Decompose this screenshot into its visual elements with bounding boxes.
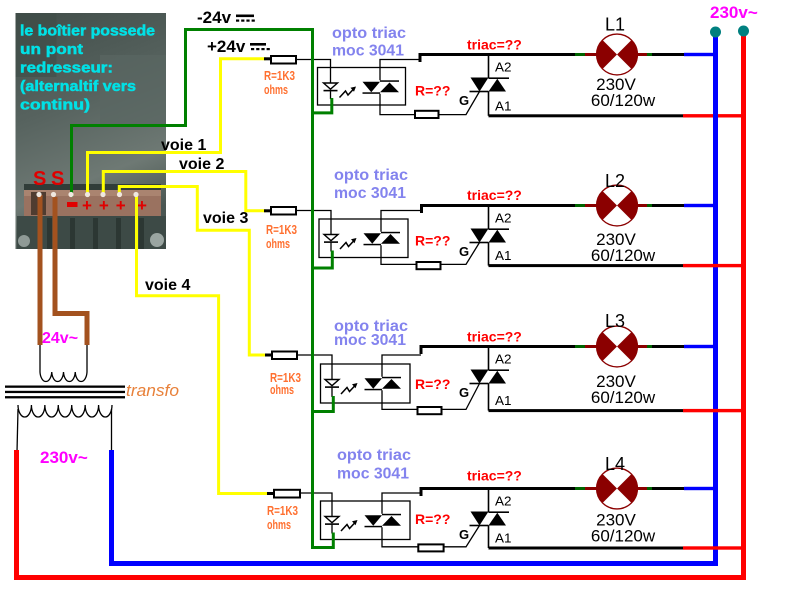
svg-text:+: + [137,196,147,215]
svg-text:L2: L2 [605,171,625,191]
light arrow inside opto U4 [341,522,356,532]
wire voie 3 (yellow) [119,187,267,356]
photo-triac of opto U1 [363,82,381,93]
svg-text:60/120w: 60/120w [591,91,656,110]
svg-text:A1: A1 [495,393,512,408]
pin dots on connector [36,192,138,197]
svg-text:continu): continu) [20,97,90,114]
svg-text:opto triac: opto triac [334,167,408,184]
wire 230v blue neutral bus [713,31,718,566]
LED of opto U3 [325,380,339,386]
lamp L4 230V [597,469,637,509]
svg-text:+: + [116,196,126,215]
opto U3 pin wires [382,355,421,377]
resistor R=1K3 lead (ch3) [265,354,273,357]
wire A1 return line ch2 [489,264,684,267]
svg-text:ohms: ohms [264,82,288,97]
svg-text:triac=??: triac=?? [467,329,522,345]
triac T2 [488,206,490,230]
wire +24v / voie 1 (yellow) [88,59,267,196]
svg-text:R=??: R=?? [415,511,450,527]
triac T1 [488,55,490,79]
wire voie 4 (yellow) [137,195,270,494]
svg-text:R=??: R=?? [415,83,450,99]
wire voie 2 (yellow) [103,172,266,211]
resistor R=1K3 ch1 [271,56,296,64]
opto U4 pin wires [382,493,421,514]
svg-text:230v~: 230v~ [710,3,758,22]
svg-text:opto triac: opto triac [332,25,406,42]
svg-text:A1: A1 [495,531,512,546]
resistor R=1K3 ch4 [274,490,300,498]
svg-text:R=??: R=?? [415,376,450,392]
svg-text:230v~: 230v~ [40,448,88,467]
svg-text:G: G [459,93,469,108]
LED of opto U1 [324,83,338,89]
svg-text:voie 4: voie 4 [145,277,190,294]
svg-text:ohms: ohms [267,517,291,532]
wire green LED cathode to bus (ch2) [311,251,332,269]
wire green LED cathode to bus (ch3) [311,396,333,412]
resistor R=?? ch3 (gate) [418,407,442,414]
resistor R=1K3 lead (ch1) [264,57,272,60]
opto U2 pin wires [381,211,422,232]
svg-text:ohms: ohms [266,236,290,251]
svg-text:A2: A2 [495,60,512,75]
svg-text:moc 3041: moc 3041 [332,43,404,60]
svg-text:S: S [33,168,46,190]
svg-text:opto triac: opto triac [337,447,411,464]
resistor R=1K3 ch2 [271,207,296,215]
connector strip on photo [24,190,161,216]
wire A2 line ch1 (to lamp) [419,53,422,62]
svg-text:voie 2: voie 2 [179,156,224,173]
lamp L1 230V [597,35,637,75]
node 230v~ terminal dots [710,27,721,38]
wire resistor to LED (ch2) [296,211,331,235]
resistor R=1K3 lead (ch2) [264,209,272,212]
svg-text:voie 3: voie 3 [203,210,248,227]
transformer core [5,386,125,399]
photo-triac of opto U3 [365,378,383,389]
opto coupler U2 box (moc 3041) [319,219,408,258]
terminal minus marker [67,202,78,207]
svg-text:ohms: ohms [270,382,294,397]
opto U1 pin wires [380,60,420,81]
wire gate resistor to triac gate (ch4) [444,526,480,547]
svg-text:-24v: -24v [197,8,232,27]
svg-text:60/120w: 60/120w [591,388,656,407]
svg-text:60/120w: 60/120w [591,246,656,265]
wire gate resistor to triac gate (ch1) [439,92,480,115]
transformer primary coil (24v) [40,343,87,382]
terminal plus markers [82,196,147,215]
svg-text:voie 1: voie 1 [161,137,206,154]
svg-text:transfo: transfo [126,381,179,400]
svg-text:moc 3041: moc 3041 [334,185,406,202]
wire gate resistor to triac gate (ch3) [442,384,480,410]
wire S terminal brown left [38,195,43,345]
resistor R=1K3 lead (ch4) [267,492,275,495]
LED of opto U2 [324,235,338,241]
svg-text:R=??: R=?? [415,233,450,249]
wire green LED cathode to bus (ch4) [311,533,333,548]
svg-text:redresseur:: redresseur: [20,60,113,77]
transformer secondary coil (230v) [17,405,112,452]
svg-text:(alternaltif vers: (alternaltif vers [20,78,136,95]
svg-text:A2: A2 [495,352,512,367]
svg-text:A2: A2 [495,494,512,509]
wire resistor to LED (ch3) [297,355,332,380]
wire A1 return line ch1 [489,114,684,117]
wire resistor to LED (ch1) [296,60,331,84]
wire green -24v cathode bus [311,28,314,549]
svg-text:L1: L1 [605,15,625,35]
wire A2 line ch2 (to lamp) [420,204,423,213]
svg-text:le boîtier possede: le boîtier possede [20,23,155,40]
photo-triac of opto U4 [365,515,383,526]
screw terminals on photo [17,216,166,249]
wire red bottom run to transformer [14,575,746,580]
light arrow inside opto U2 [340,240,355,250]
svg-text:+24v: +24v [207,37,246,56]
lamp L3 230V [597,327,637,367]
triac T3 [488,347,490,371]
svg-text:+: + [99,196,109,215]
LED of opto U4 [325,517,339,523]
wire A1 return line ch4 [489,547,684,550]
caption text on photo [20,23,155,114]
wire S terminal brown right [55,197,87,345]
wire A1 return line ch3 [489,409,684,412]
svg-text:L3: L3 [605,311,625,331]
resistor R=?? ch4 (gate) [418,544,443,551]
svg-text:R=1K3: R=1K3 [266,222,297,237]
svg-text:L4: L4 [605,454,625,474]
svg-text:+: + [82,196,92,215]
svg-text:triac=??: triac=?? [467,187,522,203]
svg-text:G: G [459,244,469,259]
wire blue bus over channel 1 crossing [713,114,718,118]
opto coupler U1 box (moc 3041) [318,68,406,106]
photo-triac of opto U2 [364,233,382,244]
svg-text:moc 3041: moc 3041 [337,466,409,483]
svg-text:R=1K3: R=1K3 [267,503,298,518]
opto coupler U4 box (moc 3041) [321,501,411,540]
triac T4 [488,489,490,513]
opto coupler U3 box (moc 3041) [321,364,411,403]
wire resistor to LED (ch4) [300,493,332,517]
resistor R=1K3 ch3 [272,352,297,360]
svg-text:moc 3041: moc 3041 [334,332,406,349]
wire -24v green to minus terminal [72,30,313,198]
resistor R=?? ch2 (gate) [417,262,441,269]
wire A2 line ch4 (to lamp) [420,487,423,496]
svg-text:A2: A2 [495,211,512,226]
wire gate resistor to triac gate (ch2) [441,243,480,265]
svg-text:R=1K3: R=1K3 [264,68,295,83]
wire green LED cathode to bus (ch1) [311,98,332,113]
resistor R=?? ch1 (gate) [415,111,439,118]
svg-text:24v~: 24v~ [42,330,78,347]
svg-text:triac=??: triac=?? [467,37,522,53]
svg-text:60/120w: 60/120w [591,527,656,546]
lamp L2 230V [597,186,637,226]
svg-text:A1: A1 [495,248,512,263]
svg-text:G: G [459,527,469,542]
svg-text:triac=??: triac=?? [467,468,522,484]
wire A2 line ch3 (to lamp) [420,345,423,354]
svg-text:A1: A1 [495,98,512,113]
svg-text:G: G [459,385,469,400]
light arrow inside opto U3 [341,385,356,395]
svg-text:un pont: un pont [20,41,83,58]
light arrow inside opto U1 [340,88,355,98]
svg-text:S: S [51,168,64,190]
wire 230v red live bus [741,31,746,580]
wire blue bottom run to transformer [109,561,718,566]
